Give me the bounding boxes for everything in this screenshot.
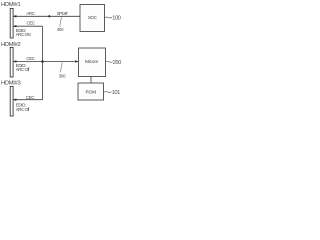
svg-text:SOC: SOC: [88, 15, 98, 20]
svg-text:CEC: CEC: [26, 95, 34, 100]
junction dot CEC bus: [41, 60, 44, 63]
svg-text:CEC: CEC: [26, 56, 34, 61]
svg-text:HDMI#3: HDMI#3: [1, 80, 21, 86]
wire CEC HDMI#3 to bus: [13, 99, 43, 101]
svg-text:Micom: Micom: [85, 59, 98, 65]
arrowhead into Micom (CEC line): [75, 60, 78, 63]
svg-text:CEC: CEC: [27, 20, 35, 25]
arrowhead at HDMI#2 (CEC line): [13, 60, 16, 63]
connector HDMI#1: [10, 9, 13, 39]
svg-text:HDMI#1: HDMI#1: [1, 2, 21, 8]
connector HDMI#3: [10, 87, 13, 117]
box Micom 200: [79, 48, 106, 77]
arrowhead at HDMI#1 (ARC line): [13, 15, 16, 18]
svg-text:SPDIF: SPDIF: [57, 11, 69, 16]
svg-text:ARC: ARC: [26, 11, 34, 16]
box ROM 101: [78, 83, 104, 100]
box SoC 100: [80, 5, 105, 32]
svg-text:HDMI#2: HDMI#2: [1, 42, 21, 48]
arrowhead mid-line (SPDIF direction): [47, 15, 50, 18]
svg-text:ROM: ROM: [86, 89, 97, 95]
wire CEC HDMI#2 to Micom: [13, 61, 79, 63]
wire Micom to ROM: [90, 77, 92, 84]
svg-text:300: 300: [59, 73, 66, 78]
wire ARC/SPDIF: SoC to HDMI#1: [13, 15, 80, 17]
leader for 400: [60, 17, 61, 27]
wire CEC bus vertical: [42, 26, 44, 100]
arrowhead at HDMI#1 (CEC line): [13, 25, 16, 28]
leader squiggle 100: [105, 16, 112, 19]
svg-text:101: 101: [112, 90, 121, 96]
svg-text:200: 200: [113, 60, 122, 66]
leader squiggle 101: [104, 91, 111, 94]
svg-text:ARC ON: ARC ON: [16, 32, 31, 37]
svg-text:400: 400: [57, 27, 64, 32]
svg-text:ARC Off: ARC Off: [16, 67, 30, 72]
svg-text:100: 100: [112, 15, 121, 21]
wire CEC HDMI#1 to bus: [13, 25, 43, 27]
arrowhead at HDMI#3 (CEC line): [13, 98, 16, 101]
svg-text:ARC Off: ARC Off: [16, 107, 30, 112]
connector HDMI#2: [10, 48, 13, 78]
leader squiggle 200: [106, 60, 113, 63]
leader for 300: [61, 62, 62, 72]
